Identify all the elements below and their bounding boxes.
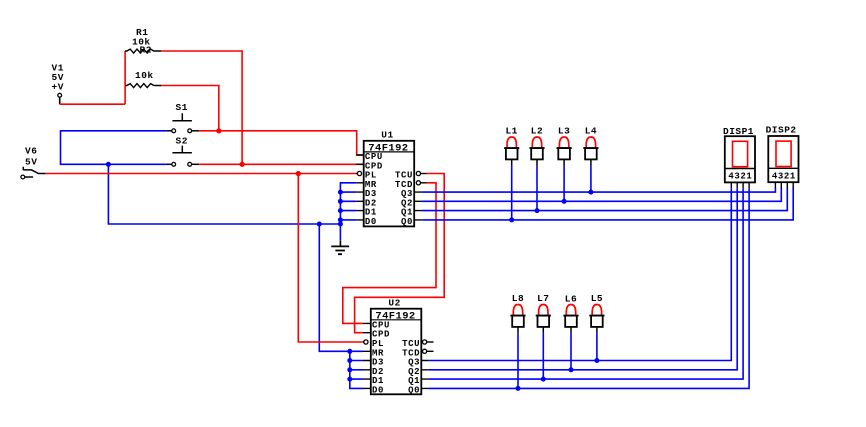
wire R2 output to S1 row (161, 86, 218, 131)
op U1 74F192 body (364, 130, 415, 227)
wire U2 Q2 to DISP1 pin3 (429, 188, 738, 370)
svg-text:L1: L1 (505, 126, 517, 137)
U1 left pin labels (365, 152, 383, 227)
clock source V6 (SPDT symbol) (21, 167, 46, 179)
wire S2 output to U1 CPD (199, 163, 364, 165)
wire U1 Q2 row (422, 188, 782, 202)
U1 left pin stubs (356, 155, 363, 220)
wire branch to U2 MR (319, 224, 363, 351)
svg-text:L6: L6 (565, 293, 577, 304)
display DISP1 (723, 126, 755, 182)
power source V1 label (52, 63, 64, 93)
node U2 D2 junction (347, 367, 352, 372)
node L5/Q3 (594, 358, 599, 363)
wire L3 to Q2 (563, 166, 565, 201)
resistor R2 label (overlapping) (135, 44, 154, 81)
lamp L5 (589, 293, 604, 333)
DISP1 pin stubs (731, 182, 749, 188)
U1 right pin stubs (414, 192, 422, 220)
svg-text:U1: U1 (381, 130, 393, 141)
wire U2 Q3 to DISP1 pin4 (429, 188, 732, 360)
node L6/Q2 (569, 367, 574, 372)
wire U2 Q0 to DISP1 pin1 (429, 188, 749, 388)
wire L4 to Q3 (590, 166, 592, 192)
lamp L3 (557, 126, 572, 166)
svg-text:4321: 4321 (728, 172, 752, 182)
clock source V6 label (25, 146, 37, 168)
svg-text:L3: L3 (558, 126, 570, 137)
lamp L8 (510, 293, 525, 333)
node U2 MR junction (347, 349, 352, 354)
svg-text:4321: 4321 (772, 171, 796, 181)
node ground bus branch to U2 (317, 222, 322, 227)
node ground bus tap (106, 162, 111, 167)
svg-text:5V: 5V (25, 156, 37, 167)
svg-text:+V: +V (52, 82, 64, 93)
lamp L6 (563, 293, 578, 333)
lamp L4 (583, 126, 598, 166)
U1 right pin labels (395, 171, 413, 227)
lamp L2 (529, 126, 544, 166)
node L8/Q0 (516, 386, 521, 391)
op U2 74F192 body (371, 297, 422, 394)
display DISP2 (766, 125, 799, 183)
U2 left pin labels (372, 320, 390, 395)
lamp L1 (504, 126, 519, 166)
svg-text:Q0: Q0 (408, 385, 420, 395)
wire U1 MR/D manifold to ground (340, 183, 356, 241)
U2 TCD bubble and stub (423, 349, 434, 353)
U1 TCD bubble and stub (416, 181, 426, 185)
svg-text:D0: D0 (365, 217, 377, 227)
wire S1 output to U1 CPU (199, 131, 364, 155)
node L1/Q0 (509, 217, 514, 222)
wire ground bus down (108, 164, 340, 224)
wire L7 to U2 Q1 (542, 333, 544, 379)
switch S1 (166, 113, 199, 132)
wire U1 TCD to U2 CPU (343, 183, 436, 324)
node U2 D3 junction (347, 358, 352, 363)
DISP2 pin stubs (775, 182, 793, 188)
wire resistor left bus (124, 51, 126, 104)
svg-text:L2: L2 (531, 126, 543, 137)
U2 TCU bubble and stub (423, 340, 434, 344)
node R2/S1 junction (216, 128, 221, 133)
wire U2 MR/D manifold (350, 351, 363, 388)
node D0 junction (338, 217, 343, 222)
node L7/Q1 (541, 377, 546, 382)
resistor R2 (125, 84, 161, 88)
wire PL branch to U2 PL (298, 174, 363, 343)
U1 PL bubble (356, 171, 361, 175)
node D1 junction (338, 208, 343, 213)
svg-text:R2: R2 (140, 44, 152, 55)
U2 right pin labels (402, 339, 420, 395)
wire L8 to U2 Q0 (517, 333, 519, 389)
wire U1 Q0 row (422, 188, 793, 220)
wire L1 to Q0 (511, 166, 513, 220)
svg-text:10k: 10k (135, 70, 154, 81)
svg-text:L7: L7 (537, 293, 549, 304)
node PL branch (296, 171, 301, 176)
node R1/S2 junction (240, 162, 245, 167)
svg-text:L4: L4 (585, 126, 597, 137)
wire L6 to U2 Q2 (570, 333, 572, 370)
wire S1 left to ground bus (blue) (61, 131, 167, 165)
svg-text:D0: D0 (372, 385, 384, 395)
node ground bus junction (338, 222, 343, 227)
ground (331, 241, 349, 254)
svg-text:U2: U2 (388, 297, 400, 308)
svg-text:S2: S2 (176, 136, 188, 147)
power source V1 terminal (58, 93, 62, 104)
svg-text:V6: V6 (25, 146, 37, 157)
node U2 D1 junction (347, 377, 352, 382)
resistor R1 (125, 49, 161, 53)
U2 left pin stubs (363, 323, 371, 388)
svg-text:L8: L8 (512, 293, 524, 304)
node L3/Q2 (562, 199, 567, 204)
wire U1 Q1 row (422, 188, 788, 211)
wire U2 Q1 to DISP1 pin2 (429, 188, 743, 379)
wire V6 to PL pins (46, 173, 358, 175)
U2 PL bubble (363, 340, 368, 344)
node D3 junction (338, 190, 343, 195)
resistor R1 label (132, 27, 151, 48)
lamp L7 (536, 293, 551, 333)
U1 TCU bubble and stub (416, 171, 426, 175)
node L4/Q3 (588, 190, 593, 195)
wire V1 to resistors (60, 103, 125, 105)
wire L2 to Q1 (536, 166, 538, 211)
wire U1 TCU to U2 CPD (355, 174, 445, 333)
wire L5 to U2 Q3 (596, 333, 598, 361)
svg-text:Q0: Q0 (401, 217, 413, 227)
svg-text:L5: L5 (591, 293, 603, 304)
switch S2 (166, 146, 199, 167)
node D2 junction (338, 199, 343, 204)
U2 right pin stubs (421, 361, 428, 389)
svg-text:DISP2: DISP2 (766, 125, 797, 136)
wire U1 Q3 row (422, 188, 776, 192)
svg-text:S1: S1 (176, 102, 188, 113)
wire R1 output to S2 row (161, 51, 242, 164)
node L2/Q1 (535, 208, 540, 213)
